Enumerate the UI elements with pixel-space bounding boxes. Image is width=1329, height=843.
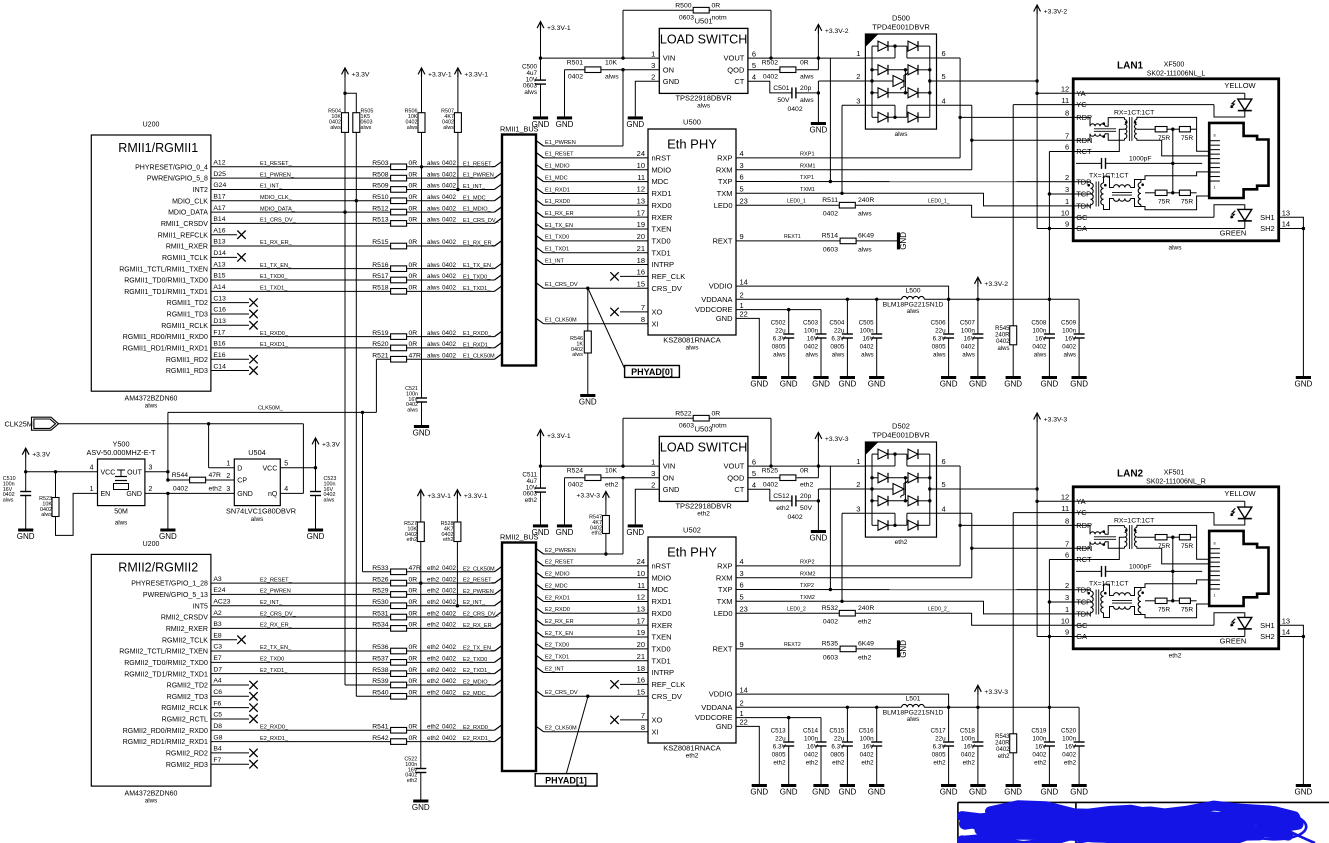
resistor R524 10K xyxy=(565,477,585,479)
svg-text:alws: alws xyxy=(907,716,920,723)
ground shield xyxy=(1296,784,1311,787)
ground REXT xyxy=(897,232,900,249)
svg-text:alws: alws xyxy=(861,352,874,359)
svg-text:E2_TXD1_: E2_TXD1_ xyxy=(260,668,288,674)
ground C504 xyxy=(840,376,855,379)
wire D pin6 to RDP/RXP xyxy=(937,57,961,59)
svg-text:0805: 0805 xyxy=(830,752,845,759)
svg-text:RGMII1_RD2: RGMII1_RD2 xyxy=(166,357,208,364)
svg-text:PWREN/GPIO_5_8: PWREN/GPIO_5_8 xyxy=(147,176,208,183)
svg-text:R511: R511 xyxy=(822,197,838,204)
svg-text:RXD1: RXD1 xyxy=(652,597,672,606)
svg-text:19: 19 xyxy=(637,628,645,637)
svg-text:RGMII1_RD0/RMII1_RXD0: RGMII1_RD0/RMII1_RXD0 xyxy=(123,334,208,341)
svg-text:LOAD SWITCH: LOAD SWITCH xyxy=(660,441,747,455)
svg-text:TPD4E001DBVR: TPD4E001DBVR xyxy=(872,431,930,440)
svg-text:0805: 0805 xyxy=(772,344,787,351)
svg-text:L500: L500 xyxy=(905,287,920,294)
capacitor C512 20p xyxy=(748,489,792,501)
svg-text:E2_TXD0: E2_TXD0 xyxy=(545,643,569,649)
svg-text:E8: E8 xyxy=(213,632,222,639)
resistor R500 0R xyxy=(623,9,693,11)
svg-text:3: 3 xyxy=(149,465,153,472)
wire Y500 OUT / CLK50M xyxy=(145,471,168,473)
svg-text:0402: 0402 xyxy=(442,352,457,359)
svg-text:0R: 0R xyxy=(409,341,418,348)
capacitor C507 xyxy=(977,299,979,334)
svg-text:GND: GND xyxy=(579,398,597,407)
svg-text:R526: R526 xyxy=(372,576,388,583)
ground C520 xyxy=(1072,784,1087,787)
svg-text:0402: 0402 xyxy=(860,344,875,351)
svg-text:C502: C502 xyxy=(771,320,787,327)
svg-text:100n: 100n xyxy=(804,736,819,743)
svg-text:E2_RXD0_: E2_RXD0_ xyxy=(463,725,492,731)
svg-text:eth2: eth2 xyxy=(427,599,440,606)
svg-text:GND: GND xyxy=(839,788,857,797)
svg-text:C5: C5 xyxy=(213,712,222,719)
wire VIN rail +3.3V-1 xyxy=(541,57,660,59)
svg-text:alws: alws xyxy=(800,97,814,104)
wire net TXP1 to TDP xyxy=(736,181,1073,183)
wire net E2_RXD0 xyxy=(536,608,544,614)
node flag CLK25M xyxy=(34,419,56,428)
svg-text:alws: alws xyxy=(427,194,440,201)
svg-text:eth2: eth2 xyxy=(407,537,418,543)
svg-text:alws: alws xyxy=(427,217,440,224)
wire net E1_MDC xyxy=(536,176,544,182)
svg-text:E1_MDIO: E1_MDIO xyxy=(545,164,570,170)
svg-text:0R: 0R xyxy=(712,410,721,417)
svg-text:alws: alws xyxy=(3,498,14,504)
svg-text:3: 3 xyxy=(1065,185,1069,194)
svg-text:RGMII2_RCLK: RGMII2_RCLK xyxy=(161,705,208,712)
svg-text:RXD0: RXD0 xyxy=(652,609,672,618)
svg-text:0603: 0603 xyxy=(679,422,694,429)
svg-text:+3.3V-3: +3.3V-3 xyxy=(1044,417,1068,424)
svg-text:6.3V: 6.3V xyxy=(773,336,787,343)
svg-text:F6: F6 xyxy=(213,700,221,707)
svg-text:0402: 0402 xyxy=(442,690,457,697)
svg-text:D502: D502 xyxy=(892,422,910,431)
svg-text:E16: E16 xyxy=(213,352,225,359)
svg-text:E2_TX_EN_: E2_TX_EN_ xyxy=(260,645,292,651)
capacitor C523 100n xyxy=(310,491,321,493)
capacitor C514 xyxy=(820,718,822,742)
resistor R533 47R xyxy=(391,569,407,575)
svg-text:RX=1CT:1CT: RX=1CT:1CT xyxy=(1114,109,1154,116)
svg-text:100n: 100n xyxy=(1032,328,1047,335)
svg-text:22u: 22u xyxy=(834,736,845,743)
wire U504 VCC xyxy=(315,447,317,492)
svg-text:3: 3 xyxy=(740,161,744,170)
capacitor C508 xyxy=(1044,333,1055,335)
svg-text:2: 2 xyxy=(651,73,655,82)
resistor R520 0R xyxy=(391,345,407,351)
capacitor C516 xyxy=(876,707,878,742)
resistor R503 0R xyxy=(391,164,407,170)
wire net E1_TXD1 xyxy=(536,247,544,253)
transformer TX common-mode choke xyxy=(1104,176,1114,187)
svg-text:0R: 0R xyxy=(800,60,809,67)
svg-text:9: 9 xyxy=(740,640,744,649)
svg-text:MDIO: MDIO xyxy=(652,573,672,582)
ground R501 xyxy=(557,116,572,119)
svg-text:eth2: eth2 xyxy=(773,760,786,767)
svg-text:TPS22918DBVR: TPS22918DBVR xyxy=(675,94,732,103)
svg-text:2: 2 xyxy=(1065,581,1069,590)
svg-text:GND: GND xyxy=(839,380,857,389)
svg-text:eth2: eth2 xyxy=(1169,653,1182,660)
svg-text:4: 4 xyxy=(752,73,756,82)
svg-text:VDDIO: VDDIO xyxy=(709,282,733,291)
svg-text:VDDCORE: VDDCORE xyxy=(695,305,733,314)
svg-text:A17: A17 xyxy=(213,205,225,212)
svg-text:alws: alws xyxy=(894,131,908,138)
svg-text:E2_INT_: E2_INT_ xyxy=(463,600,486,606)
svg-text:E1_RXD1_: E1_RXD1_ xyxy=(260,342,289,348)
op-amp U504 SN74LVC1G80DBVR flip-flop xyxy=(234,459,280,506)
svg-text:SN74LVC1G80DBVR: SN74LVC1G80DBVR xyxy=(226,507,296,516)
svg-text:E1_TXD0_: E1_TXD0_ xyxy=(463,275,491,281)
wire net RXP1 xyxy=(736,157,960,159)
wire +3.3V-3 rail xyxy=(924,706,1079,708)
svg-text:B13: B13 xyxy=(213,239,225,246)
svg-text:R541: R541 xyxy=(372,723,388,730)
svg-text:0402: 0402 xyxy=(804,344,819,351)
ground C502 xyxy=(781,376,796,379)
svg-text:RGMII2_RD0/RMII2_RXD0: RGMII2_RD0/RMII2_RXD0 xyxy=(123,728,208,735)
wire net TXM2 to TDN xyxy=(736,601,1073,614)
svg-text:eth2: eth2 xyxy=(443,537,454,543)
wire D5xx cathode rail xyxy=(929,454,931,525)
svg-text:AC23: AC23 xyxy=(213,598,230,605)
svg-text:eth2: eth2 xyxy=(1034,760,1047,767)
wire VDDANA rail xyxy=(736,298,902,300)
diode D5xx row2 pair xyxy=(872,69,878,71)
svg-text:eth2: eth2 xyxy=(605,481,618,488)
ground load switch xyxy=(628,524,643,527)
svg-text:0R: 0R xyxy=(712,2,721,9)
svg-text:YELLOW: YELLOW xyxy=(1224,489,1256,498)
svg-text:E2_RXD1: E2_RXD1 xyxy=(545,595,570,601)
svg-text:TXM1: TXM1 xyxy=(800,187,815,193)
svg-text:C513: C513 xyxy=(771,728,787,735)
svg-text:47R: 47R xyxy=(409,565,422,572)
svg-text:eth2: eth2 xyxy=(592,531,603,537)
svg-text:E1_MDC_: E1_MDC_ xyxy=(463,195,490,201)
svg-text:R532: R532 xyxy=(822,605,838,612)
wire MDIO_CLK to channel 2 xyxy=(355,201,357,697)
svg-text:eth2: eth2 xyxy=(800,481,813,488)
svg-text:24: 24 xyxy=(637,557,645,566)
svg-text:22: 22 xyxy=(740,310,748,319)
svg-text:RXM: RXM xyxy=(716,573,733,582)
svg-text:GND: GND xyxy=(1295,788,1313,797)
svg-text:0402: 0402 xyxy=(442,644,457,651)
svg-text:RMII2_BUS: RMII2_BUS xyxy=(500,533,539,542)
svg-text:+3.3V-1: +3.3V-1 xyxy=(547,25,571,32)
node PHYAD[1] label xyxy=(567,697,588,773)
resistor TX 75R pair xyxy=(1145,192,1155,194)
resistor R519 0R xyxy=(391,334,407,340)
resistor R526 0R xyxy=(391,580,407,586)
svg-text:U503: U503 xyxy=(695,425,713,434)
wire D pin1 to TXP xyxy=(829,466,831,590)
resistor R544 47R xyxy=(168,479,190,481)
wire U504 D input xyxy=(208,424,210,468)
svg-text:GND: GND xyxy=(159,532,177,541)
svg-text:1: 1 xyxy=(226,461,230,468)
power +3.3V-2 top xyxy=(1036,5,1038,14)
svg-text:B14: B14 xyxy=(213,216,225,223)
svg-text:0R: 0R xyxy=(409,194,418,201)
ground C516 xyxy=(869,784,884,787)
power +3.3V at C510 xyxy=(25,448,27,457)
svg-text:8: 8 xyxy=(1065,517,1069,526)
svg-text:U200: U200 xyxy=(143,122,160,129)
svg-text:RXM: RXM xyxy=(716,165,733,174)
svg-text:+3.3V: +3.3V xyxy=(32,452,50,459)
svg-text:0402: 0402 xyxy=(442,160,457,167)
svg-text:alws: alws xyxy=(443,125,454,131)
wire net E1_RXD0 xyxy=(536,200,544,206)
resistor RX 75R pair xyxy=(1137,536,1155,538)
svg-text:REXT: REXT xyxy=(712,645,732,654)
svg-text:YELLOW: YELLOW xyxy=(1224,81,1256,90)
svg-text:19: 19 xyxy=(637,220,645,229)
svg-text:0402: 0402 xyxy=(996,747,1010,753)
svg-text:R543: R543 xyxy=(995,734,1010,740)
inductor L501 ferrite bead xyxy=(902,704,925,707)
svg-text:alws: alws xyxy=(324,498,335,504)
power +3.3V-2 at load switch xyxy=(817,24,819,33)
capacitor C519 xyxy=(1044,741,1055,743)
svg-text:RMII1/RGMII1: RMII1/RGMII1 xyxy=(118,141,198,155)
svg-text:R539: R539 xyxy=(372,678,388,685)
resistor R536 0R xyxy=(391,648,407,654)
svg-text:75R: 75R xyxy=(1181,606,1193,613)
svg-text:alws: alws xyxy=(572,352,583,358)
diode D5xx center clamp xyxy=(865,80,893,82)
connector LAN1 XF500 xyxy=(1073,79,1279,241)
svg-text:RMII1_REFCLK: RMII1_REFCLK xyxy=(158,232,209,239)
svg-text:1: 1 xyxy=(1065,197,1069,206)
svg-text:VDDANA: VDDANA xyxy=(701,703,732,712)
svg-text:R522: R522 xyxy=(675,410,691,417)
svg-text:18: 18 xyxy=(637,664,645,673)
svg-text:CT: CT xyxy=(734,485,744,494)
wire net RXP2 xyxy=(736,565,960,567)
power +3.3V-3 at R547 xyxy=(605,491,607,500)
svg-text:R545: R545 xyxy=(995,326,1010,332)
svg-text:50V: 50V xyxy=(800,505,813,512)
svg-text:1: 1 xyxy=(651,49,655,58)
no-connect REF_CLK xyxy=(620,683,648,685)
svg-text:21: 21 xyxy=(637,652,645,661)
resistor R547 4K7 pull-up xyxy=(605,500,607,516)
svg-text:2: 2 xyxy=(856,72,860,81)
svg-text:E1_CRS_DV_: E1_CRS_DV_ xyxy=(463,218,500,224)
svg-text:LAN1: LAN1 xyxy=(1117,61,1144,72)
svg-text:0402: 0402 xyxy=(1032,344,1047,351)
diode D5xx row4 pair xyxy=(872,116,878,118)
svg-text:16V: 16V xyxy=(1065,744,1077,751)
svg-text:E2_PWREN: E2_PWREN xyxy=(260,589,291,595)
wire net RXM1 xyxy=(736,169,972,171)
capacitor C521 100n xyxy=(416,397,427,399)
svg-text:C501: C501 xyxy=(773,85,789,92)
power +3.3V-1 at C511 xyxy=(540,430,542,439)
svg-text:VIN: VIN xyxy=(663,462,676,471)
svg-text:GND: GND xyxy=(868,788,886,797)
svg-text:nQ: nQ xyxy=(268,491,278,498)
svg-text:QOD: QOD xyxy=(727,473,745,482)
ground C509 xyxy=(1072,376,1087,379)
resistor R535 6K49 REXT xyxy=(736,648,840,650)
svg-text:0805: 0805 xyxy=(830,344,845,351)
wire RCT center tap xyxy=(1073,537,1124,559)
svg-text:alws: alws xyxy=(115,520,128,527)
wire net E1_CRS_DV xyxy=(536,283,544,289)
svg-text:E1_TXD1_: E1_TXD1_ xyxy=(260,286,288,292)
wire net E1_PWREN xyxy=(536,141,544,147)
svg-text:E1_INT_: E1_INT_ xyxy=(463,184,486,190)
svg-text:0R: 0R xyxy=(409,622,418,629)
svg-text:6: 6 xyxy=(942,49,946,58)
svg-text:notm: notm xyxy=(712,422,727,429)
svg-text:R531: R531 xyxy=(372,610,388,617)
svg-text:6K49: 6K49 xyxy=(858,233,874,240)
svg-text:E1_TX_EN: E1_TX_EN xyxy=(545,223,573,229)
svg-text:PWREN/GPIO_5_13: PWREN/GPIO_5_13 xyxy=(143,592,208,599)
crystal oscillator Y500 ASV-50.000MHZ-E-T xyxy=(98,459,145,506)
svg-text:0603: 0603 xyxy=(679,14,694,21)
svg-text:6.3V: 6.3V xyxy=(831,744,845,751)
wire net E2_CRS_DV xyxy=(536,691,544,697)
svg-text:R500: R500 xyxy=(675,2,691,9)
wire net E2_PWREN xyxy=(536,549,544,555)
ground C500 xyxy=(533,116,548,119)
svg-text:4: 4 xyxy=(284,486,288,493)
resistor R509 0R xyxy=(391,187,407,193)
svg-text:alws: alws xyxy=(330,125,341,131)
svg-text:eth2: eth2 xyxy=(525,497,538,504)
svg-text:GND: GND xyxy=(750,380,768,389)
power +3.3V-1 at R506 xyxy=(421,68,423,77)
svg-text:0603: 0603 xyxy=(823,246,838,253)
wire RCT center tap xyxy=(1073,129,1124,151)
svg-text:5: 5 xyxy=(942,480,946,489)
svg-text:R503: R503 xyxy=(372,160,388,167)
wire net E2_RESET xyxy=(536,560,544,566)
svg-text:D500: D500 xyxy=(892,14,910,23)
svg-text:eth2: eth2 xyxy=(1064,760,1077,767)
svg-text:0402: 0402 xyxy=(442,576,457,583)
svg-text:7: 7 xyxy=(641,303,645,312)
svg-text:13: 13 xyxy=(1282,616,1290,625)
svg-text:R510: R510 xyxy=(372,194,388,201)
svg-text:E2_RXD1_: E2_RXD1_ xyxy=(260,736,289,742)
svg-text:RXP: RXP xyxy=(717,154,732,163)
svg-text:XF500: XF500 xyxy=(1164,62,1185,69)
diode D5xx center clamp xyxy=(865,488,893,490)
capacitor C511 4u7 xyxy=(540,466,542,488)
svg-text:alws: alws xyxy=(361,125,372,131)
ground PHY xyxy=(752,784,767,787)
svg-text:MDC: MDC xyxy=(652,177,670,186)
svg-text:ON: ON xyxy=(663,65,674,74)
svg-text:E2_TXD1: E2_TXD1 xyxy=(545,655,569,661)
wire D pin5 to +3.3V rail xyxy=(937,80,1038,82)
svg-text:LED0_2: LED0_2 xyxy=(787,606,806,612)
svg-text:+3.3V-2: +3.3V-2 xyxy=(1044,9,1068,16)
svg-text:B4: B4 xyxy=(213,746,222,753)
power +3.3V-3 at rail xyxy=(977,685,979,694)
svg-text:E2_TXD0: E2_TXD0 xyxy=(260,657,284,663)
svg-text:REF_CLK: REF_CLK xyxy=(652,272,686,281)
svg-text:B16: B16 xyxy=(213,341,225,348)
svg-text:R538: R538 xyxy=(372,667,388,674)
resistor R539 0R xyxy=(391,682,407,688)
resistor R501 10K xyxy=(565,69,585,71)
resistor R541 0R xyxy=(391,727,407,733)
svg-text:E2_RESET_: E2_RESET_ xyxy=(260,577,293,583)
svg-text:SH1: SH1 xyxy=(1260,213,1275,222)
svg-text:notm: notm xyxy=(712,14,727,21)
svg-text:GND: GND xyxy=(626,528,644,537)
svg-text:eth2: eth2 xyxy=(427,576,440,583)
svg-text:E2_RESET_: E2_RESET_ xyxy=(463,578,496,584)
wire net E1_INT xyxy=(536,259,544,265)
svg-text:KSZ8081RNACA: KSZ8081RNACA xyxy=(663,336,721,345)
svg-text:GND: GND xyxy=(1070,380,1088,389)
ground C505 xyxy=(869,376,884,379)
svg-text:C516: C516 xyxy=(859,728,875,735)
capacitor C509 xyxy=(1078,299,1080,334)
svg-text:0402: 0402 xyxy=(442,667,457,674)
capacitor C517 xyxy=(948,707,950,742)
svg-text:GND: GND xyxy=(663,77,680,86)
svg-text:E1_RXD1_: E1_RXD1_ xyxy=(463,342,492,348)
ground C506 xyxy=(941,376,956,379)
svg-text:TXD1: TXD1 xyxy=(652,656,671,665)
svg-text:C14: C14 xyxy=(213,363,226,370)
inductor L500 ferrite bead xyxy=(902,296,925,299)
svg-text:50M: 50M xyxy=(114,509,128,516)
svg-text:+3.3V-1: +3.3V-1 xyxy=(428,71,452,78)
svg-text:RGMII2_RD1/RMII2_RXD1: RGMII2_RD1/RMII2_RXD1 xyxy=(123,739,208,746)
svg-text:+3.3V: +3.3V xyxy=(352,71,370,78)
svg-text:RGMII1_RD1/RMII1_RXD1: RGMII1_RD1/RMII1_RXD1 xyxy=(123,346,208,353)
ground C518 xyxy=(970,784,985,787)
svg-text:PHYRESET/GPIO_1_28: PHYRESET/GPIO_1_28 xyxy=(131,581,208,588)
capacitor C518 xyxy=(977,707,979,742)
wire VDDANA rail xyxy=(736,706,902,708)
wire D5xx cathode rail xyxy=(929,46,931,117)
svg-text:+3.3V-3: +3.3V-3 xyxy=(576,493,600,500)
resistor TX 75R pair xyxy=(1145,600,1155,602)
op-amp U503 load switch TPS22918DBVR xyxy=(659,436,748,501)
resistor R532 240R LED xyxy=(736,612,839,614)
svg-text:CLK50M_: CLK50M_ xyxy=(258,406,284,412)
svg-text:0402: 0402 xyxy=(442,610,457,617)
svg-text:E2_MDC: E2_MDC xyxy=(545,583,568,589)
svg-text:0R: 0R xyxy=(409,678,418,685)
svg-text:RGMII2_TD3: RGMII2_TD3 xyxy=(167,694,208,701)
svg-text:E1_MDC: E1_MDC xyxy=(545,175,568,181)
svg-text:D25: D25 xyxy=(213,171,226,178)
